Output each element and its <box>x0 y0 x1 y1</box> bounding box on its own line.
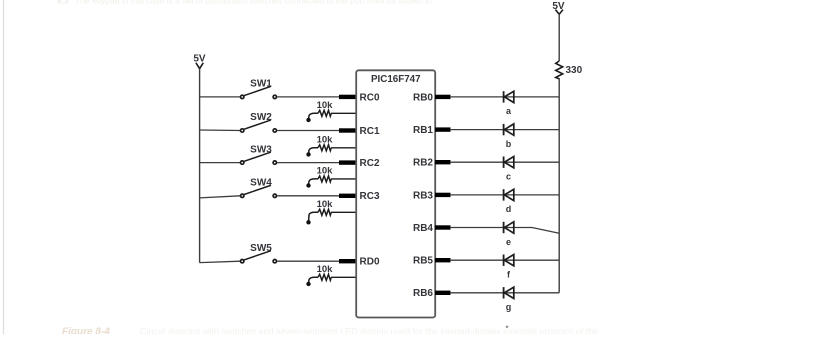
svg-text:RB0: RB0 <box>413 92 433 103</box>
svg-text:b: b <box>506 139 512 149</box>
svg-text:c: c <box>506 172 511 182</box>
svg-text:RB5: RB5 <box>413 256 433 267</box>
svg-text:Circuit diagram with switches: Circuit diagram with switches and seven-… <box>140 327 598 335</box>
svg-text:RC0: RC0 <box>360 92 380 103</box>
svg-text:SW1: SW1 <box>250 79 272 90</box>
svg-text:RC2: RC2 <box>360 158 380 169</box>
svg-text:5V: 5V <box>193 54 206 65</box>
svg-text:SW4: SW4 <box>250 178 272 189</box>
svg-text:d: d <box>506 204 512 214</box>
svg-text:RC1: RC1 <box>360 126 380 137</box>
svg-text:SW5: SW5 <box>250 243 272 254</box>
svg-text:Figure 8-4: Figure 8-4 <box>62 327 110 335</box>
svg-text:SW2: SW2 <box>250 112 272 123</box>
svg-text:RB3: RB3 <box>413 190 433 201</box>
svg-text:RB4: RB4 <box>413 223 433 234</box>
svg-text:RB2: RB2 <box>413 158 433 169</box>
svg-text:10k: 10k <box>317 100 334 111</box>
svg-text:RD0: RD0 <box>360 257 380 268</box>
svg-text:e: e <box>506 237 511 247</box>
svg-text:RB6: RB6 <box>413 288 433 299</box>
svg-text:PIC16F747: PIC16F747 <box>371 74 421 85</box>
svg-text:10k: 10k <box>317 264 334 275</box>
svg-text:10k: 10k <box>317 199 334 210</box>
svg-text:g: g <box>506 302 512 312</box>
svg-text:The keypad in this case is a s: The keypad in this case is a set of push… <box>75 0 432 5</box>
svg-text:10k: 10k <box>317 166 334 177</box>
svg-text:RC3: RC3 <box>360 191 380 202</box>
svg-text:8.3: 8.3 <box>57 0 69 5</box>
svg-text:10k: 10k <box>317 135 334 146</box>
svg-text:330: 330 <box>566 65 583 76</box>
svg-text:SW3: SW3 <box>250 144 272 155</box>
svg-text:RB1: RB1 <box>413 125 433 136</box>
